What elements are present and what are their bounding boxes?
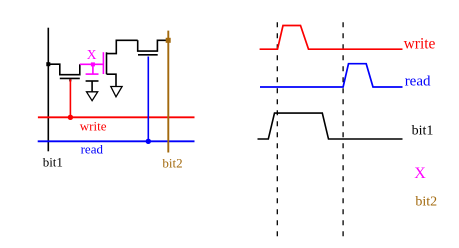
svg-text:X: X: [414, 165, 426, 182]
svg-text:read: read: [81, 142, 104, 157]
svg-text:bit1: bit1: [43, 155, 63, 170]
svg-text:bit1: bit1: [412, 123, 434, 138]
svg-text:bit2: bit2: [162, 156, 182, 171]
svg-text:bit2: bit2: [415, 195, 437, 210]
svg-text:write: write: [80, 118, 107, 133]
svg-text:write: write: [404, 35, 436, 52]
svg-text:X: X: [87, 47, 97, 62]
svg-text:read: read: [405, 74, 431, 90]
